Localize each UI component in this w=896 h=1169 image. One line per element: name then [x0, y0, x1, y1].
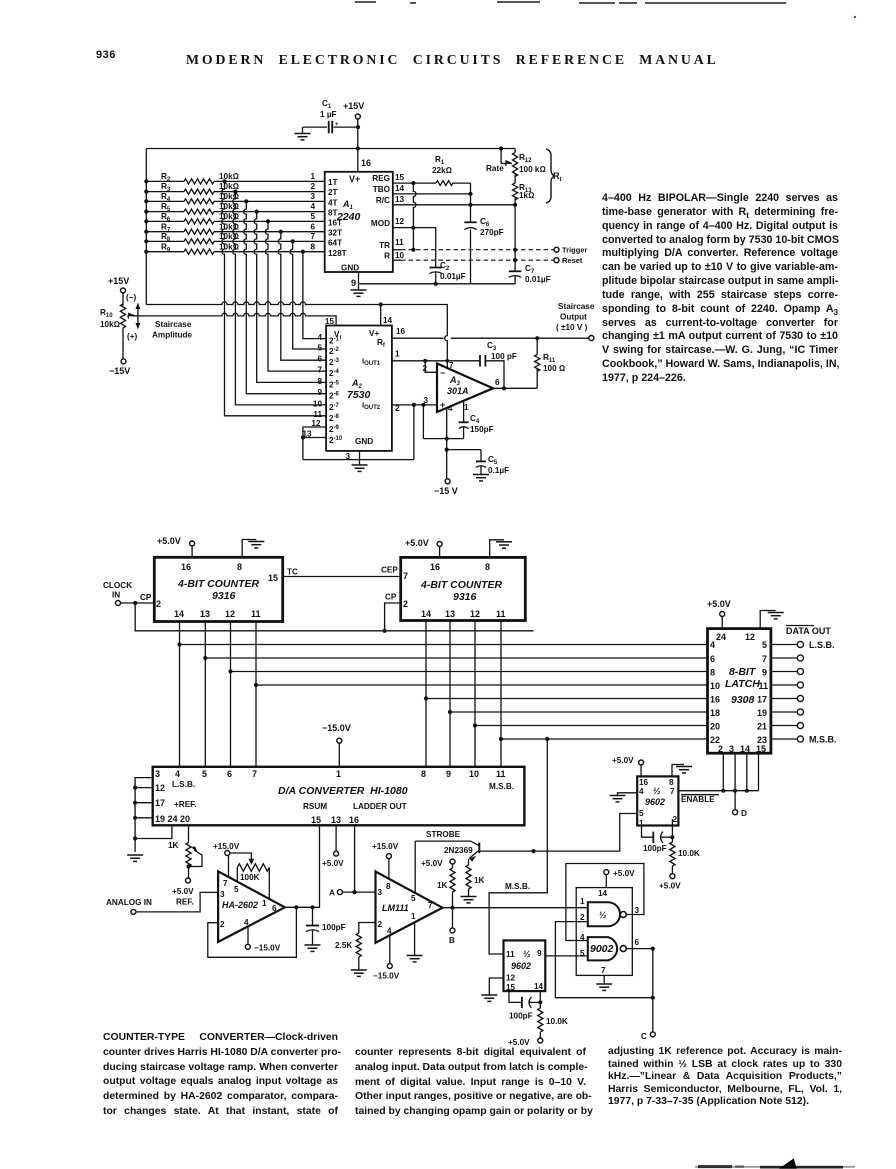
svg-text:−15V: −15V — [109, 366, 130, 376]
svg-text:7: 7 — [601, 966, 606, 975]
terminal staircase output — [556, 302, 595, 341]
svg-text:6: 6 — [635, 938, 640, 947]
svg-text:11: 11 — [496, 769, 506, 779]
svg-text:2-3: 2-3 — [329, 358, 340, 367]
svg-text:5: 5 — [202, 769, 207, 779]
wire data bus row 5 — [426, 698, 708, 700]
wire gate B output loop to gate A input 2 — [555, 922, 655, 1000]
D/A converter U6 HI-1080 box — [153, 767, 525, 826]
wire R10 wiper to 7530 Vr pin15 — [146, 313, 336, 325]
svg-text:10: 10 — [469, 769, 479, 779]
svg-text:2: 2 — [580, 913, 585, 922]
svg-text:17: 17 — [757, 695, 767, 705]
svg-text:7: 7 — [252, 769, 257, 779]
svg-text:1: 1 — [464, 403, 469, 412]
svg-text:10.0K: 10.0K — [678, 849, 700, 858]
svg-text:9002: 9002 — [590, 943, 614, 955]
svg-text:CP: CP — [385, 593, 397, 602]
svg-text:8: 8 — [710, 668, 715, 678]
capacitor C1 — [303, 99, 359, 133]
terminal data out bit 4 — [771, 682, 804, 688]
wire gate B output to C — [626, 947, 655, 1032]
svg-text:2: 2 — [156, 599, 161, 609]
ground (LM111 pin 1) — [407, 922, 423, 962]
svg-text:64T: 64T — [328, 239, 342, 248]
svg-text:6: 6 — [272, 904, 277, 913]
svg-text:10: 10 — [313, 399, 323, 408]
resistor R7 10k — [146, 222, 325, 234]
nand gate package box 9002 — [576, 888, 632, 976]
wire drop 32T to DAC 2^-3 — [278, 230, 326, 361]
op-amp timer U1 2240 box — [310, 158, 404, 288]
svg-text:14: 14 — [174, 609, 184, 619]
svg-text:19: 19 — [757, 708, 767, 718]
ground (1K emitter) — [461, 897, 477, 903]
node +15V top bus — [146, 146, 515, 150]
ground (9002 pin 7) — [596, 975, 612, 990]
svg-text:−15.0V: −15.0V — [322, 723, 351, 733]
svg-text:2: 2 — [310, 182, 315, 191]
wire data bus row 7 — [475, 725, 708, 727]
wire data bus row 2 — [205, 657, 707, 659]
svg-text:19 24 20: 19 24 20 — [155, 814, 190, 824]
svg-text:16: 16 — [396, 327, 406, 336]
svg-text:7: 7 — [310, 232, 315, 241]
svg-text:4: 4 — [317, 333, 322, 342]
svg-text:4: 4 — [710, 640, 715, 650]
svg-text:22kΩ: 22kΩ — [432, 166, 452, 175]
resistor R6 10k — [146, 212, 325, 224]
svg-text:2: 2 — [422, 364, 427, 373]
wire IOUT2 row to op-amp plus input — [392, 403, 437, 439]
svg-text:+5.0V: +5.0V — [613, 869, 635, 878]
page edge marks top — [355, 2, 786, 3]
resistor R11 100ohm — [535, 338, 566, 388]
svg-text:Staircase: Staircase — [155, 320, 192, 329]
terminal +15.0V (HA-2602 pin 7) — [213, 842, 240, 877]
svg-text:10: 10 — [710, 681, 720, 691]
svg-text:1kΩ: 1kΩ — [519, 191, 534, 200]
nand gate A 1/2 9002 — [580, 897, 640, 926]
svg-text:0.01µF: 0.01µF — [525, 275, 551, 284]
svg-text:3: 3 — [310, 192, 315, 201]
svg-text:(−): (−) — [126, 293, 137, 302]
svg-text:R: R — [384, 252, 390, 261]
resistor R8 10k — [146, 232, 325, 244]
svg-text:Output: Output — [560, 313, 587, 322]
svg-text:4: 4 — [639, 787, 644, 796]
svg-text:100K: 100K — [240, 873, 260, 882]
nand gate B 1/2 9002 — [580, 933, 640, 960]
svg-text:TBO: TBO — [373, 185, 391, 194]
svg-text:14: 14 — [421, 609, 431, 619]
terminal ANALOG IN — [106, 892, 218, 914]
svg-text:2T: 2T — [328, 188, 338, 197]
svg-text:R12: R12 — [519, 153, 532, 164]
svg-text:8: 8 — [485, 562, 490, 572]
wire R dashed reset line — [393, 258, 554, 262]
svg-text:100 pF: 100 pF — [491, 352, 517, 361]
svg-text:12: 12 — [225, 609, 235, 619]
ground (C1) — [295, 127, 311, 140]
wire data bus row 6 — [450, 711, 708, 713]
svg-text:2N2369: 2N2369 — [444, 846, 473, 855]
svg-text:LADDER OUT: LADDER OUT — [353, 802, 407, 811]
svg-text:IOUT1: IOUT1 — [362, 357, 381, 368]
svg-text:Staircase: Staircase — [558, 302, 595, 311]
wire latch pin3 strobe vertical — [734, 753, 736, 791]
svg-text:1: 1 — [310, 172, 315, 181]
svg-text:2-6: 2-6 — [329, 392, 340, 401]
svg-text:5: 5 — [234, 885, 239, 894]
wire MSB net to 9602 trigger — [489, 739, 547, 954]
svg-text:10: 10 — [395, 251, 405, 260]
terminal +15.0V (LM111 pin 8) — [372, 842, 399, 879]
svg-text:13: 13 — [445, 609, 455, 619]
wire drop 4T to DAC 2^-6 — [244, 199, 326, 393]
capacitor C6 270pF — [464, 217, 503, 237]
svg-text:4-BIT COUNTER: 4-BIT COUNTER — [420, 579, 503, 591]
svg-text:11: 11 — [496, 609, 506, 619]
svg-text:5: 5 — [317, 343, 322, 352]
svg-text:−15.0V: −15.0V — [373, 972, 400, 981]
svg-text:32T: 32T — [328, 229, 342, 238]
svg-text:LM111: LM111 — [382, 903, 409, 913]
svg-text:4-BIT COUNTER: 4-BIT COUNTER — [177, 578, 260, 590]
svg-text:M.S.B.: M.S.B. — [809, 735, 837, 745]
svg-text:150pF: 150pF — [470, 425, 494, 434]
svg-text:1 µF: 1 µF — [320, 110, 337, 119]
D/A converter U2 7530 box — [302, 316, 405, 461]
svg-text:15: 15 — [311, 815, 321, 825]
svg-text:16: 16 — [430, 562, 440, 572]
svg-text:9: 9 — [351, 278, 356, 288]
svg-text:D/A CONVERTER HI-1080: D/A CONVERTER HI-1080 — [278, 785, 408, 797]
svg-text:9: 9 — [446, 769, 451, 779]
svg-text:5: 5 — [310, 212, 315, 221]
svg-text:1: 1 — [262, 899, 267, 908]
svg-text:2: 2 — [220, 920, 225, 929]
svg-text:+: + — [335, 122, 339, 128]
svg-text:7: 7 — [449, 361, 454, 370]
page artifact dot top right — [854, 16, 856, 18]
svg-text:13: 13 — [200, 609, 210, 619]
svg-text:7: 7 — [317, 366, 322, 375]
svg-text:9602: 9602 — [511, 961, 531, 971]
svg-text:2-9: 2-9 — [329, 425, 340, 434]
svg-text:ENABLE: ENABLE — [681, 795, 715, 804]
svg-text:B: B — [449, 936, 455, 945]
svg-text:270pF: 270pF — [480, 228, 504, 237]
svg-text:R1: R1 — [435, 155, 445, 166]
svg-text:2-2: 2-2 — [329, 347, 340, 356]
svg-text:17: 17 — [155, 798, 165, 808]
resistor R2 10k — [146, 172, 325, 184]
terminal +5.0V with 1K pullup (LM111 output) — [421, 859, 455, 908]
wire LM111 output row — [443, 906, 588, 910]
wire IOUT1 row to op-amp minus input — [392, 359, 480, 373]
wire data bus row 3 — [231, 671, 708, 673]
svg-text:−: − — [440, 368, 445, 378]
wire counter2 pin14 to DAC pin8 — [424, 621, 428, 767]
wire 301A output row — [493, 386, 537, 390]
svg-text:2-1: 2-1 — [329, 337, 340, 346]
terminal +5.0V (counter 1) — [157, 536, 195, 557]
wire latch pin15 strobe vertical — [758, 753, 760, 791]
svg-text:+5.0V: +5.0V — [421, 859, 443, 868]
svg-text:12: 12 — [470, 609, 480, 619]
svg-text:+: + — [440, 400, 445, 410]
svg-text:1: 1 — [336, 769, 341, 779]
svg-text:14: 14 — [383, 316, 393, 325]
svg-text:+5.0V: +5.0V — [612, 756, 634, 765]
monostable U9 1/2 9602 (enable) box — [637, 776, 678, 828]
terminal -15.0V (DAC pin 1) — [322, 723, 351, 767]
wire REG-MOD-TR vertical — [411, 183, 416, 252]
svg-text:Rate: Rate — [486, 164, 504, 173]
svg-text:Rt: Rt — [553, 171, 562, 183]
wire 7530 pins 12,13 loop to ground rail — [301, 427, 326, 460]
wire pin13 R/C row to Rt — [393, 203, 517, 207]
svg-text:+15V: +15V — [108, 276, 129, 286]
ground (9602 pin 12) — [481, 978, 503, 1001]
svg-text:M.S.B.: M.S.B. — [505, 882, 530, 891]
svg-text:C1: C1 — [322, 99, 332, 110]
svg-text:12: 12 — [745, 632, 755, 642]
wire clock rail — [135, 603, 533, 633]
svg-text:A1: A1 — [342, 199, 354, 211]
svg-text:+15V: +15V — [343, 101, 364, 111]
wire counter2 pin11 to DAC pin11 — [499, 621, 503, 767]
svg-text:4T: 4T — [328, 199, 338, 208]
4-bit counter U3 9316 box — [154, 557, 282, 621]
svg-text:8T: 8T — [328, 209, 338, 218]
svg-text:RSUM: RSUM — [303, 802, 327, 811]
svg-text:13: 13 — [395, 195, 405, 204]
svg-text:+5.0V: +5.0V — [707, 599, 731, 609]
monostable U10 1/2 9602 box — [504, 940, 546, 992]
svg-text:10kΩ: 10kΩ — [219, 172, 239, 181]
svg-text:REF.: REF. — [176, 898, 194, 907]
svg-text:16: 16 — [639, 778, 649, 787]
svg-text:R11: R11 — [543, 353, 556, 364]
svg-text:Amplitude: Amplitude — [152, 331, 192, 340]
terminal +5.0V (counter 2) — [405, 538, 442, 557]
wire drop 16T to DAC 2^-4 — [265, 219, 326, 371]
svg-text:9316: 9316 — [453, 591, 477, 603]
svg-text:ANALOG IN: ANALOG IN — [106, 898, 152, 907]
svg-text:9: 9 — [317, 388, 322, 397]
resistor 10.0K (enable 9602) — [670, 819, 700, 874]
wire 7530 pin14 stub — [380, 305, 382, 326]
svg-text:+5.0V: +5.0V — [322, 859, 344, 868]
wire latch pin14 strobe vertical — [746, 753, 748, 791]
svg-text:9308: 9308 — [731, 694, 755, 706]
svg-text:100pF: 100pF — [509, 1012, 533, 1021]
resistor 1K (transistor emitter) — [466, 859, 485, 896]
svg-text:V+: V+ — [369, 329, 379, 338]
svg-text:7530: 7530 — [347, 389, 371, 401]
+15V supply terminal — [343, 101, 364, 172]
svg-text:R/C: R/C — [376, 196, 390, 205]
ground (100pF) — [305, 945, 321, 951]
svg-text:21: 21 — [757, 722, 767, 732]
svg-text:( ±10 V ): ( ±10 V ) — [556, 323, 588, 332]
svg-text:11: 11 — [506, 950, 515, 959]
wire counter2 pin12 to DAC pin10 — [473, 621, 477, 767]
resistor R4 10k — [146, 192, 325, 204]
svg-text:5: 5 — [411, 894, 416, 903]
svg-text:6: 6 — [495, 378, 500, 387]
svg-text:1: 1 — [580, 897, 585, 906]
wire counter1 pin11 to DAC pin7 — [254, 622, 258, 767]
4-bit counter U4 9316 box — [401, 557, 526, 620]
svg-text:M.S.B.: M.S.B. — [489, 782, 514, 791]
svg-text:+15.0V: +15.0V — [213, 842, 240, 851]
svg-text:9: 9 — [762, 668, 767, 678]
svg-text:5: 5 — [580, 949, 585, 958]
ground (C5) — [473, 475, 489, 481]
terminal -15.0V (HA-2602 pin 4) — [245, 926, 280, 952]
terminal data out bit 7 — [771, 722, 804, 728]
svg-text:9316: 9316 — [212, 590, 236, 602]
svg-text:½: ½ — [599, 910, 607, 920]
svg-text:+5.0V: +5.0V — [659, 882, 681, 891]
svg-text:14: 14 — [395, 184, 405, 193]
svg-text:V+: V+ — [349, 174, 360, 184]
wire strobe line (LM111 pin 5) — [415, 830, 479, 893]
svg-text:2: 2 — [718, 744, 723, 754]
ground (9602 pin 4) — [610, 793, 638, 802]
svg-text:24: 24 — [716, 632, 726, 642]
svg-text:½: ½ — [523, 949, 531, 959]
capacitor 100pF (9602 timing) — [509, 991, 542, 1020]
svg-text:18: 18 — [710, 708, 720, 718]
wire Rt node down to C7 — [513, 250, 517, 271]
svg-text:1T: 1T — [328, 178, 338, 187]
terminal +5.0V (DAC pin 13) — [322, 825, 344, 868]
svg-text:+15.0V: +15.0V — [372, 842, 399, 851]
svg-text:C6: C6 — [480, 217, 490, 228]
wire counter1 pin13 to DAC pin5 — [203, 622, 207, 767]
svg-text:CP: CP — [140, 593, 152, 602]
capacitor C3 100pF feedback — [480, 341, 517, 388]
svg-text:4: 4 — [244, 918, 249, 927]
wire drop 128T to DAC 2^-1 — [301, 250, 326, 339]
svg-text:5: 5 — [762, 640, 767, 650]
svg-text:3: 3 — [220, 890, 225, 899]
svg-text:CEP: CEP — [381, 566, 398, 575]
ground (DAC reference) — [127, 855, 143, 861]
svg-text:15: 15 — [506, 983, 516, 992]
svg-text:7: 7 — [223, 879, 228, 888]
terminal data out bit 1 LSB — [771, 640, 835, 650]
svg-text:½: ½ — [653, 786, 661, 796]
svg-text:2-4: 2-4 — [329, 369, 340, 378]
wire latch pin2 strobe vertical — [722, 753, 724, 791]
wire clock to strobe transistor collector and 9602 pin 5 — [531, 814, 637, 854]
svg-text:Trigger: Trigger — [562, 246, 588, 255]
svg-text:1: 1 — [411, 912, 416, 921]
resistor R5 10k — [146, 202, 325, 214]
svg-text:14: 14 — [740, 744, 750, 754]
svg-text:8: 8 — [669, 778, 674, 787]
ground (7530 pin 3) — [352, 460, 368, 472]
svg-text:4: 4 — [448, 404, 453, 413]
svg-text:D: D — [741, 809, 747, 818]
svg-text:10kΩ: 10kΩ — [100, 320, 120, 329]
terminal -15.0V (LM111 pin 4) — [373, 935, 400, 980]
terminal +5.0V (9602 timing) — [508, 1038, 543, 1047]
svg-text:2: 2 — [673, 815, 678, 824]
svg-text:Reset: Reset — [562, 256, 583, 265]
ground (2.5K) — [351, 970, 367, 976]
resistor R9 10k — [146, 242, 325, 254]
svg-text:1K: 1K — [437, 881, 448, 890]
svg-text:100pF: 100pF — [322, 923, 346, 932]
svg-text:3: 3 — [635, 906, 640, 915]
svg-text:C5: C5 — [488, 455, 498, 466]
wire 7530 analog ground rail — [303, 405, 414, 460]
svg-text:16: 16 — [361, 158, 371, 168]
svg-text:2-10: 2-10 — [329, 436, 343, 445]
svg-text:16: 16 — [349, 815, 359, 825]
wire counter1 pin12 to DAC pin6 — [228, 622, 232, 767]
svg-text:16T: 16T — [328, 219, 342, 228]
svg-text:LATCH: LATCH — [725, 678, 760, 690]
svg-text:9: 9 — [537, 949, 542, 958]
svg-text:12: 12 — [395, 217, 405, 226]
ground (2240 pin 9) — [351, 284, 367, 297]
svg-text:4: 4 — [175, 769, 180, 779]
wire drop 64T to DAC 2^-2 — [290, 239, 326, 349]
wire 2240 ground rail — [359, 272, 516, 286]
svg-text:12: 12 — [506, 974, 516, 983]
wire data bus row 8 MSB — [501, 737, 708, 741]
svg-text:5: 5 — [639, 809, 644, 818]
svg-text:1: 1 — [395, 350, 400, 359]
svg-text:6: 6 — [710, 654, 715, 664]
potentiometer 100K offset — [230, 853, 269, 898]
svg-text:1K: 1K — [168, 841, 179, 850]
svg-text:L.S.B.: L.S.B. — [172, 780, 195, 789]
svg-text:REG: REG — [372, 174, 390, 183]
svg-text:100 kΩ: 100 kΩ — [519, 165, 546, 174]
potentiometer R10 10k staircase amplitude — [100, 276, 192, 376]
svg-text:0.01µF: 0.01µF — [440, 272, 466, 281]
node A ladder out — [329, 825, 376, 897]
terminal data out bit 3 — [771, 668, 804, 674]
svg-text:14: 14 — [534, 982, 544, 991]
capacitor C2 0.01uF — [430, 261, 466, 284]
wire TR dashed trigger line — [393, 248, 554, 252]
wire DAC ground bus left — [133, 778, 172, 852]
svg-text:CLOCK: CLOCK — [103, 581, 132, 590]
svg-text:3: 3 — [378, 888, 383, 897]
svg-text:16: 16 — [181, 562, 191, 572]
svg-text:A: A — [329, 889, 335, 898]
svg-text:8: 8 — [421, 769, 426, 779]
svg-text:11: 11 — [313, 410, 322, 419]
svg-text:15: 15 — [268, 573, 278, 583]
wire +15V rail to 7530 V+ and 301A pin7 — [146, 302, 447, 368]
svg-text:11: 11 — [395, 238, 404, 247]
svg-text:HA-2602: HA-2602 — [222, 900, 258, 910]
svg-text:7: 7 — [670, 787, 675, 796]
svg-text:−15 V: −15 V — [434, 486, 458, 496]
svg-text:6: 6 — [317, 355, 322, 364]
svg-text:12: 12 — [155, 783, 165, 793]
